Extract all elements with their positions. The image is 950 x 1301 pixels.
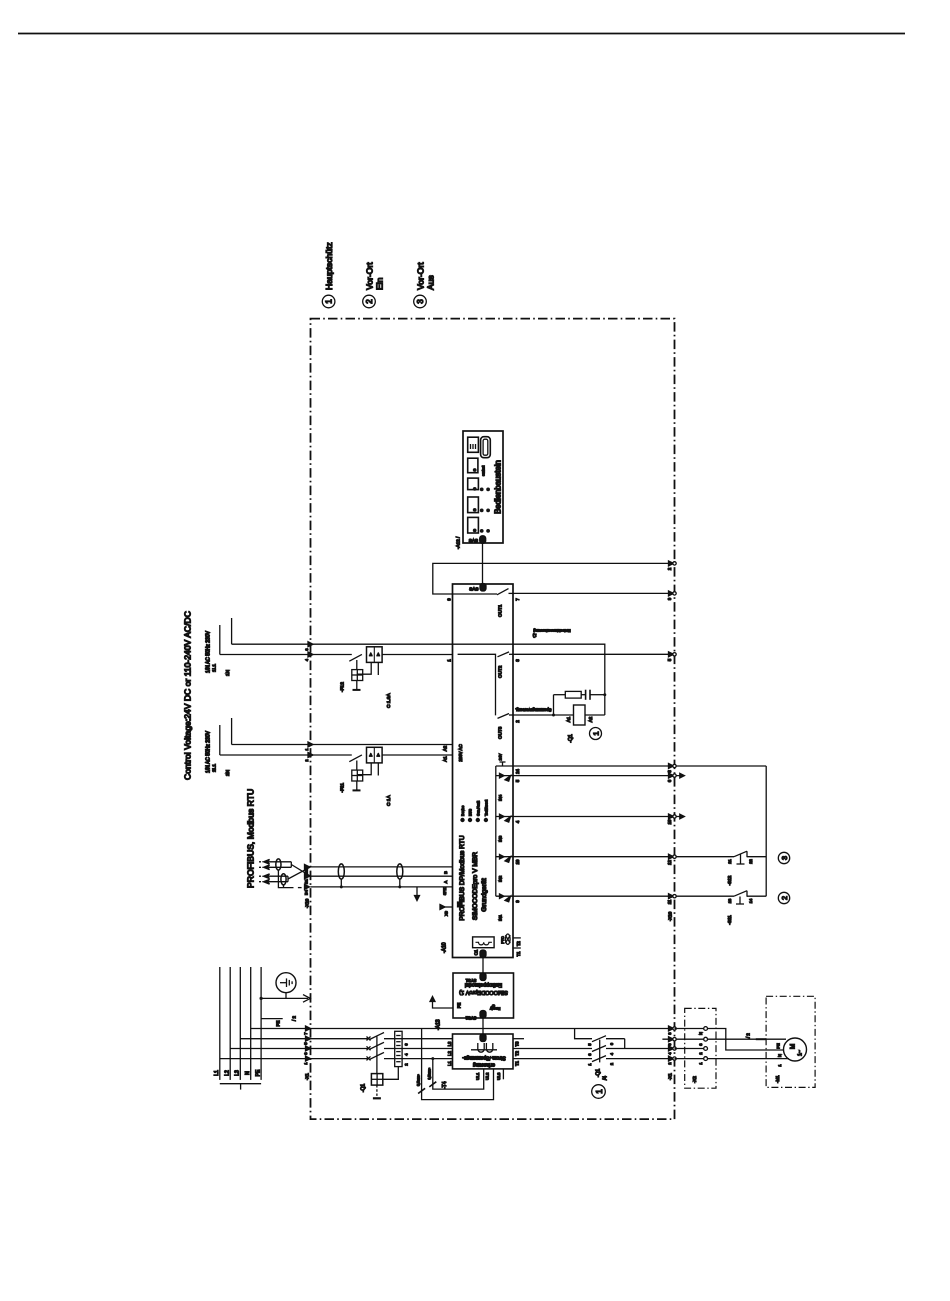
border connector right 5	[669, 652, 674, 657]
svg-text:OUT3: OUT3	[498, 726, 503, 739]
contactor coil Q1	[574, 705, 586, 725]
expansion SYS2 port	[480, 1011, 486, 1019]
svg-text:Ein: Ein	[375, 277, 385, 290]
svg-text:1: 1	[325, 299, 334, 304]
svg-text:7: 7	[515, 598, 520, 601]
svg-text:Device: Device	[461, 806, 465, 816]
svg-text:SYS1: SYS1	[465, 978, 476, 983]
svg-text:3: 3	[416, 299, 425, 304]
rail L3	[239, 967, 241, 1080]
wire 1N left	[220, 654, 352, 656]
svg-text:2: 2	[667, 567, 672, 570]
svg-text:2: 2	[780, 896, 789, 900]
svg-text:2L1: 2L1	[212, 764, 218, 772]
svg-text:-X1: -X1	[668, 1073, 673, 1080]
contactor Q1 linkage	[599, 1040, 601, 1063]
svg-text:-A12 /: -A12 /	[456, 536, 461, 549]
input IN1	[496, 895, 515, 897]
wire T2 out	[513, 1048, 592, 1050]
svg-text:3: 3	[304, 1052, 308, 1054]
svg-text:-M1: -M1	[775, 1075, 780, 1083]
breaker Q1 contact L3	[367, 1037, 371, 1041]
relay contact OUT1	[497, 589, 509, 595]
cabinet dash-dot border	[311, 319, 675, 1120]
svg-text:erfassung: erfassung	[473, 1062, 495, 1068]
header rule	[18, 33, 905, 35]
svg-text:2N: 2N	[225, 769, 231, 776]
svg-text:6: 6	[667, 779, 672, 782]
svg-text:5: 5	[304, 1042, 308, 1044]
wire PE into cabinet	[261, 997, 308, 999]
svg-text:9: 9	[515, 900, 520, 903]
wire 24V to local panel	[675, 765, 767, 767]
svg-text:Strom-/Spannungs-: Strom-/Spannungs-	[462, 1055, 506, 1061]
wire 1N right of unit	[515, 653, 675, 655]
wire OUT1 right	[515, 592, 675, 594]
svg-text:4: 4	[515, 820, 520, 823]
wire gauge mark UL2	[418, 1088, 425, 1093]
svg-text:12: 12	[667, 860, 672, 865]
breaker Q1 linkage	[376, 1037, 378, 1074]
svg-text:3: 3	[780, 856, 789, 860]
panel SAS port	[480, 536, 486, 544]
legend ref 1 at contactor	[592, 1085, 606, 1099]
svg-text:IN4: IN4	[498, 794, 503, 801]
border connector X1 T1	[669, 1056, 674, 1061]
border connector 1N	[308, 652, 313, 657]
suppressor resistor	[565, 691, 581, 698]
svg-text:C1: C1	[474, 949, 479, 955]
border connector bus B	[305, 864, 310, 869]
expansion module A13 box	[453, 973, 514, 1018]
svg-text:-A13: -A13	[436, 1019, 442, 1030]
supply bracket	[220, 1083, 261, 1085]
svg-text:-X19: -X19	[668, 911, 673, 921]
bus ferrite 1	[338, 864, 344, 879]
svg-text:PE: PE	[457, 902, 462, 908]
svg-text:SAS: SAS	[469, 587, 478, 592]
svg-text:PTC: PTC	[501, 936, 505, 944]
svg-text:/ 2: / 2	[292, 1016, 297, 1021]
wire N	[251, 1028, 675, 1030]
svg-text:-F12: -F12	[340, 682, 346, 692]
svg-text:A1: A1	[566, 716, 571, 722]
basic unit A10 box	[453, 584, 514, 958]
expansion ready LED	[492, 1004, 496, 1008]
svg-text:A: A	[443, 880, 448, 883]
fuse F12 box stubs	[357, 662, 371, 674]
panel button 4	[468, 497, 479, 513]
svg-text:B: B	[443, 871, 448, 874]
svg-text:1): 1)	[532, 633, 536, 638]
fuse F11 blade	[349, 755, 362, 762]
svg-text:4: 4	[668, 1052, 672, 1054]
svg-text:3: 3	[305, 648, 309, 650]
svg-text:2: 2	[515, 720, 520, 723]
svg-text:14: 14	[748, 898, 753, 903]
wire IN3 stub	[515, 816, 681, 818]
svg-text:Grundgerät: Grundgerät	[481, 878, 488, 912]
fuse F12 breaker box	[367, 647, 383, 663]
border connector 1L1	[308, 642, 313, 647]
svg-text:10: 10	[667, 819, 672, 824]
svg-text:-F11: -F11	[340, 783, 346, 793]
panel button 2	[468, 458, 478, 473]
border connector L3	[306, 1036, 311, 1041]
svg-text:7: 7	[304, 1032, 308, 1034]
svg-text:1: 1	[595, 1089, 604, 1094]
SAS port top	[480, 584, 486, 592]
svg-text:9: 9	[667, 597, 672, 600]
fuse F11 breaker box	[367, 747, 383, 763]
internal OUT2 OUT3 common wire	[458, 654, 496, 715]
bus crossover wires	[291, 865, 310, 877]
node 2L1	[231, 718, 233, 745]
wire L2	[230, 1048, 367, 1050]
svg-text:Erdschlusserfassung: Erdschlusserfassung	[533, 629, 570, 634]
breaker Q1 manual actuator	[376, 1085, 378, 1097]
wire N short stub at X1	[662, 1038, 703, 1040]
LED Device	[460, 818, 464, 822]
svg-text:1: 1	[777, 1064, 782, 1067]
expansion SYS1 port	[480, 973, 486, 981]
svg-text:OUT1: OUT1	[498, 604, 503, 617]
UL1 tap wire	[433, 1059, 484, 1090]
wire X2 1 to motor	[708, 1058, 790, 1060]
border connector bus A	[305, 874, 310, 879]
svg-text:1/N AC 50Hz 230V: 1/N AC 50Hz 230V	[206, 730, 212, 773]
svg-text:Spannungsversorg.: Spannungsversorg.	[515, 708, 551, 713]
svg-text:-S12: -S12	[727, 875, 732, 885]
svg-text:A1: A1	[443, 756, 448, 762]
svg-text:1~: 1~	[798, 1050, 804, 1056]
fuse F11 box stubs	[357, 763, 371, 775]
svg-text:5: 5	[667, 658, 672, 661]
input IN3	[496, 816, 515, 818]
wire X1 to X2 row1	[675, 1028, 704, 1030]
X2 terminal 2	[704, 1047, 708, 1051]
svg-text:-Q1: -Q1	[361, 1084, 367, 1093]
legend ref 3 at S12	[778, 852, 789, 863]
svg-text:N: N	[777, 1054, 782, 1057]
svg-text:2: 2	[610, 1063, 614, 1065]
wire L3	[240, 1038, 367, 1040]
LED BUS	[468, 818, 472, 822]
border connector N	[306, 1026, 311, 1031]
svg-text:IN2: IN2	[498, 875, 503, 882]
svg-text:SIMOCODEpro V MBR: SIMOCODEpro V MBR	[472, 852, 479, 920]
svg-text:X6: X6	[445, 911, 449, 916]
PE earth symbol	[276, 973, 296, 993]
wire T3 stub	[513, 1038, 524, 1040]
fuse F12 blade	[349, 654, 362, 661]
wire gauge mark UL1	[429, 1082, 436, 1087]
svg-text:Test/Reset: Test/Reset	[484, 800, 488, 816]
svg-text:0,5mm²: 0,5mm²	[428, 1067, 432, 1079]
bus pair B twist	[281, 874, 286, 885]
pushbutton S12 NC	[734, 851, 747, 857]
wire S12 to 24V rail	[747, 856, 766, 858]
svg-text:L1: L1	[447, 1061, 452, 1066]
bus pair A twist	[276, 859, 281, 870]
wire L1	[220, 1058, 368, 1060]
measuring module T4 box	[453, 1034, 514, 1069]
rail L2	[229, 967, 231, 1080]
svg-text:4: 4	[305, 659, 309, 661]
wire 1L1 drop to RC	[604, 695, 606, 715]
svg-text:SPE: SPE	[443, 887, 447, 895]
wire 2N left	[220, 754, 352, 756]
svg-text:Ready: Ready	[490, 1007, 501, 1011]
node 2N	[219, 725, 221, 755]
wire IN1 to button S11	[515, 895, 735, 897]
svg-text:B1: B1	[304, 878, 309, 884]
node 1L1	[231, 618, 233, 644]
terminal T1 stub	[513, 947, 521, 949]
svg-text:1: 1	[304, 1062, 308, 1064]
relay contact OUT3	[498, 714, 510, 719]
pushbutton S11 NO	[734, 891, 747, 897]
border connector X1 N	[669, 1026, 674, 1031]
bus ferrite 2	[397, 864, 403, 879]
svg-text:/ 2: / 2	[746, 1033, 751, 1038]
svg-text:5: 5	[588, 1043, 592, 1045]
thermistor PTC symbol	[506, 934, 511, 944]
wire 1L1	[232, 644, 605, 695]
contactor Q1 contact 5-6	[592, 1036, 606, 1042]
svg-text:I>: I>	[376, 754, 380, 757]
svg-text:UL2: UL2	[485, 1072, 490, 1080]
svg-text:Control Voltage:24V DC or 110-: Control Voltage:24V DC or 110-240V AC/DC	[183, 611, 193, 780]
svg-text:1: 1	[305, 748, 309, 750]
svg-text:Bedienbaustein: Bedienbaustein	[494, 460, 503, 514]
svg-text:M: M	[790, 1044, 797, 1049]
unit bottom port C1	[480, 950, 486, 958]
svg-text:SAS: SAS	[469, 538, 478, 543]
svg-text:T1: T1	[516, 951, 521, 957]
wire coil row	[515, 714, 574, 716]
svg-text:L3: L3	[447, 1041, 452, 1046]
X2 terminal PE	[704, 1037, 708, 1041]
rail PE	[260, 967, 262, 1080]
svg-text:8: 8	[667, 770, 672, 773]
PE stub sheet ref	[261, 1018, 283, 1020]
svg-text:1: 1	[588, 1063, 592, 1065]
svg-text:9: 9	[447, 598, 452, 601]
svg-text:-X1: -X1	[305, 1073, 310, 1080]
LED Gen Fault	[476, 818, 480, 822]
svg-text:1: 1	[592, 731, 601, 735]
unit PE stub	[443, 906, 453, 908]
wire IN supply 24	[496, 765, 675, 767]
svg-text:T2: T2	[515, 1050, 520, 1056]
svg-text:A2: A2	[588, 716, 593, 722]
svg-text:UL3: UL3	[496, 1072, 501, 1080]
svg-text:1: 1	[699, 1062, 703, 1064]
svg-text:N: N	[245, 1071, 251, 1075]
svg-text:6: 6	[668, 1043, 672, 1045]
svg-text:I>: I>	[369, 754, 373, 757]
border connector 2N	[308, 753, 313, 758]
svg-text:1L1: 1L1	[212, 664, 218, 672]
svg-text:IN3: IN3	[498, 835, 503, 842]
wire expansion to T4	[482, 1018, 484, 1034]
border connector L1	[306, 1056, 311, 1061]
X2 terminal N	[704, 1027, 708, 1031]
svg-text:2: 2	[365, 299, 374, 304]
svg-text:1N: 1N	[225, 669, 231, 676]
border connector X1 PE	[669, 1037, 674, 1042]
wire 2L1	[232, 744, 453, 746]
svg-text:I>: I>	[369, 653, 373, 656]
LED Test Reset	[484, 818, 488, 822]
svg-text:6: 6	[610, 1043, 614, 1045]
input IN2	[496, 856, 515, 858]
svg-text:230V AC: 230V AC	[458, 744, 463, 761]
wire 1N to unit terminal 1	[382, 654, 452, 656]
svg-text:-Q1: -Q1	[596, 1069, 602, 1078]
svg-text:PE: PE	[776, 1043, 781, 1049]
wire 2N to unit terminal A1	[382, 754, 452, 756]
svg-text:24V: 24V	[499, 753, 503, 760]
svg-text:L2: L2	[447, 1051, 452, 1056]
local 24V rail vertical	[765, 766, 767, 896]
svg-text:PE: PE	[457, 1003, 462, 1009]
relay contact OUT2	[498, 652, 510, 657]
legend item 1 circle	[322, 295, 335, 308]
svg-text:Aus: Aus	[426, 275, 436, 290]
svg-text:1/N AC 50Hz 230V: 1/N AC 50Hz 230V	[206, 630, 212, 673]
svg-text:Hauptschütz: Hauptschütz	[324, 242, 334, 290]
svg-text:SYS2: SYS2	[465, 1016, 476, 1021]
bus cable pair A arrows	[264, 859, 270, 864]
wire RC left branch	[553, 695, 555, 715]
internal 24V bus	[495, 766, 497, 896]
svg-text:0,5mm²: 0,5mm²	[417, 1074, 421, 1086]
svg-text:L3: L3	[235, 1070, 241, 1076]
svg-text:2: 2	[405, 1063, 409, 1065]
svg-text:4: 4	[405, 1053, 409, 1055]
svg-text:L2: L2	[225, 1070, 231, 1076]
svg-text:L1: L1	[214, 1070, 220, 1076]
X2 terminal 1	[704, 1057, 708, 1061]
panel display window	[468, 437, 479, 452]
fuse F12 thermal element	[352, 670, 363, 681]
terminal T2 stub	[513, 937, 521, 939]
svg-text:21: 21	[727, 859, 732, 864]
svg-text:C 1.6A: C 1.6A	[386, 693, 392, 708]
legend item 2 circle	[363, 295, 376, 308]
legend ref 2 at S11	[778, 892, 789, 903]
svg-text:11: 11	[667, 899, 672, 904]
svg-text:2: 2	[699, 1052, 703, 1054]
motor boundary box	[766, 996, 815, 1087]
wire OUT1 top run	[433, 563, 675, 594]
border connector 2 top	[669, 561, 674, 566]
svg-text:UL1: UL1	[475, 1072, 480, 1080]
svg-text:4: 4	[610, 1053, 614, 1055]
terminal box X2	[685, 1008, 716, 1088]
svg-text:OUT2: OUT2	[498, 665, 503, 678]
breaker Q1 trip link	[383, 1067, 399, 1080]
expansion PE wire	[433, 999, 454, 1008]
legend ref 1 at coil	[590, 728, 602, 740]
svg-text:Vor-Ort: Vor-Ort	[365, 262, 375, 290]
svg-text:2: 2	[305, 759, 309, 761]
svg-text:C 1A: C 1A	[386, 795, 392, 806]
wire X2 PE to motor	[708, 1038, 787, 1040]
svg-text:-S11: -S11	[727, 915, 732, 925]
wire IN2 to button S12	[515, 856, 735, 858]
svg-text:PE: PE	[276, 1021, 281, 1027]
border connector bus shield	[305, 884, 310, 889]
svg-text:BUS: BUS	[469, 808, 473, 816]
svg-text:2: 2	[668, 1062, 672, 1064]
svg-text:1: 1	[447, 659, 452, 662]
wire N drop to UL2	[422, 1029, 494, 1100]
suppressor capacitor	[585, 690, 587, 700]
wire X1 to X2 row3	[675, 1048, 704, 1050]
thermistor box	[473, 937, 495, 948]
svg-text:-A10: -A10	[442, 942, 448, 953]
svg-text:SIMOCODEproV 1): SIMOCODEproV 1)	[459, 989, 508, 995]
bus wire B inside	[311, 866, 453, 868]
wire X2 N to motor	[708, 1029, 784, 1051]
svg-text:10: 10	[515, 859, 520, 864]
T4 top port	[480, 1034, 486, 1042]
svg-text:B4: B4	[304, 889, 309, 895]
svg-text:-X2: -X2	[692, 1076, 697, 1083]
border connector 2L1	[308, 742, 313, 747]
panel button 3	[468, 478, 479, 490]
panel USB slot	[481, 437, 491, 458]
bus cable pair B arrows	[264, 874, 270, 879]
legend item 3 circle	[414, 295, 427, 308]
bus shield drops	[278, 870, 293, 888]
breaker Q1 contact L1	[367, 1056, 371, 1060]
breaker Q1 contact L2	[367, 1046, 371, 1050]
svg-text:IN1: IN1	[498, 914, 503, 921]
svg-text:3: 3	[515, 659, 520, 662]
svg-text:A2: A2	[443, 745, 448, 751]
svg-text:I>: I>	[376, 653, 380, 656]
bus pair B wires	[269, 875, 289, 877]
contactor Q1 contact 3-4	[592, 1046, 606, 1052]
svg-text:Vor-Ort: Vor-Ort	[416, 262, 426, 290]
wire X1 to X2 row4	[675, 1058, 704, 1060]
svg-text:-T4: -T4	[442, 1081, 448, 1089]
svg-text:5: 5	[515, 779, 520, 782]
border connector X1 T2	[669, 1046, 674, 1051]
svg-text:/4: /4	[603, 1076, 609, 1080]
svg-text:3: 3	[588, 1053, 592, 1055]
breaker terminal strip	[395, 1031, 402, 1066]
wire IN4 stub	[515, 775, 681, 777]
motor M1 circle	[784, 1038, 807, 1061]
svg-text:3: 3	[699, 1043, 703, 1045]
svg-text:contact: contact	[482, 466, 486, 476]
svg-text:N: N	[699, 1032, 703, 1035]
wire N bypass vertical tap	[575, 1029, 592, 1039]
contactor Q1 contact 1-2	[592, 1056, 606, 1062]
breaker Q1 mechanism box	[371, 1074, 382, 1086]
svg-text:13: 13	[727, 898, 732, 903]
wire unit to expansion	[482, 958, 484, 974]
svg-text:8: 8	[668, 1032, 672, 1034]
svg-text:6: 6	[405, 1043, 409, 1045]
svg-text:-Q1: -Q1	[568, 734, 574, 743]
bus wire shield inside	[311, 886, 453, 888]
